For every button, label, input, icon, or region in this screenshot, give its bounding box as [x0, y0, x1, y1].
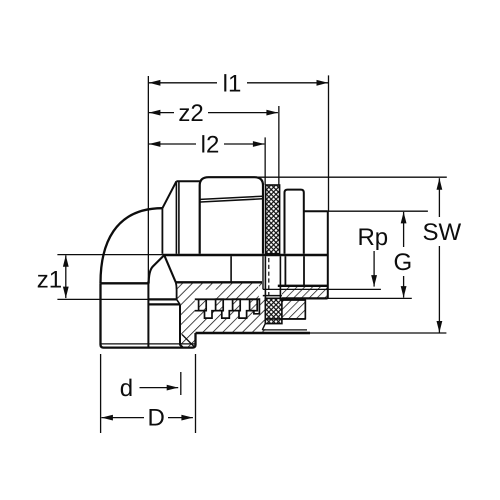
svg-text:D: D — [148, 404, 165, 431]
component socket body outline — [200, 177, 263, 254]
wire socket bore edge — [180, 304, 183, 347]
wire pipe bottom face — [104, 333, 196, 348]
node D left extension — [100, 354, 102, 433]
wire bore throat diagonal — [165, 256, 176, 283]
node z1 top extension — [57, 254, 162, 256]
svg-text:z2: z2 — [178, 100, 203, 127]
wire neck top edge — [176, 180, 199, 182]
wire insert bore lines — [262, 256, 264, 289]
node l2 right extension — [264, 137, 266, 184]
svg-text:G: G — [393, 249, 412, 276]
wire bore bottom line — [176, 281, 262, 283]
wire hatched socket lower wall section — [176, 282, 265, 347]
component brass insert lower section — [265, 298, 282, 323]
wire bore throat edge — [175, 282, 178, 299]
component knurled insert ring — [266, 185, 280, 254]
wire elbow outer arc — [100, 208, 162, 283]
wire dimension extension lines — [57, 75, 446, 433]
wire neck seam lines — [175, 181, 177, 254]
node z1 bottom extension — [57, 298, 148, 300]
node left extension centerline — [147, 76, 149, 281]
wire thread entry wedge white — [195, 290, 219, 299]
wire pipe wall chamfer diagonal — [182, 335, 194, 347]
wire z2 dimension line — [149, 112, 174, 114]
node axis line — [162, 254, 327, 257]
wire G dimension line — [403, 212, 405, 247]
wire elbow-pipe silhouette line — [101, 282, 149, 284]
wire d dimension line — [140, 387, 179, 389]
node centerline section boundary — [147, 281, 149, 348]
wire dimension lines — [66, 83, 440, 418]
wire elbow silhouette vertical — [161, 208, 163, 254]
node l1 right extension — [328, 75, 330, 211]
wire thread comb dark pegs — [199, 299, 258, 311]
wire thread comb white cutout — [195, 283, 262, 319]
node G top extension — [328, 210, 428, 212]
component collar ring — [285, 190, 304, 254]
wire thread start step — [230, 256, 232, 282]
node d right extension — [180, 372, 182, 395]
node SW bottom extension — [310, 332, 446, 334]
wire pipe mouth chamfer line — [102, 343, 195, 345]
svg-text:Rp: Rp — [357, 224, 388, 251]
svg-text:d: d — [120, 375, 133, 402]
svg-text:SW: SW — [422, 219, 461, 246]
svg-text:z1: z1 — [37, 266, 62, 293]
wire crotch curve — [149, 255, 164, 283]
wire male thread bottom line — [282, 297, 328, 299]
wire male thread root line — [278, 285, 328, 287]
wire socket stop step — [148, 298, 176, 300]
component male thread end — [304, 210, 328, 212]
node SW top extension — [258, 176, 447, 178]
svg-text:l2: l2 — [201, 132, 220, 159]
wire thread comb outline — [195, 298, 260, 318]
svg-text:l1: l1 — [223, 70, 242, 97]
wire SW dimension line — [438, 178, 440, 217]
wire l2 dimension line — [149, 143, 196, 145]
node Rp extension — [263, 288, 381, 290]
wire z1 dimension line — [65, 255, 67, 298]
wire body waist lines — [201, 196, 263, 199]
wire arrowheads — [63, 80, 442, 421]
node G bottom extension — [328, 297, 412, 299]
wire Rp leader line — [373, 251, 375, 287]
wire D dimension line — [101, 417, 144, 419]
node D right extension — [195, 354, 197, 433]
wire pipe outer left edge — [101, 283, 104, 347]
wire l1 dimension line — [149, 82, 217, 84]
wire collar section boundary verticals — [284, 256, 286, 286]
wire elbow cone edge — [162, 181, 176, 208]
wire parallelogram bottom edge — [266, 318, 305, 320]
wire thread crest line — [195, 298, 259, 300]
node z2 right extension — [278, 106, 280, 185]
wire body bottom edge — [196, 332, 311, 334]
wire collar lower section parallelogram — [270, 300, 305, 319]
wire male thread lower section hatch band — [282, 286, 328, 299]
